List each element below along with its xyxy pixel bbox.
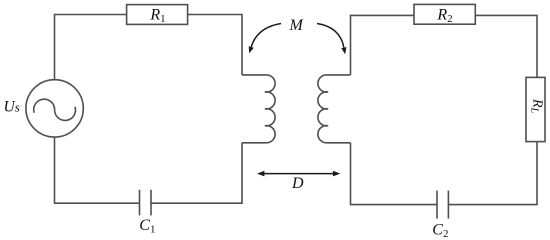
svg-text:RL: RL — [529, 98, 545, 114]
wire left-loop top right segment — [188, 15, 242, 75]
wire left-loop bottom right segment — [151, 143, 242, 203]
inductor L1 coil — [242, 75, 275, 143]
wire right-loop top right segment — [475, 15, 537, 77]
svg-text:M: M — [289, 17, 305, 34]
svg-text:Us: Us — [4, 98, 20, 115]
resistor RL box — [526, 77, 545, 141]
resistor R2 — [414, 4, 475, 24]
wire right-loop top left segment — [351, 15, 415, 75]
source sine wave — [34, 99, 76, 120]
source Us circle — [26, 80, 83, 137]
capacitor C2 plates — [437, 191, 448, 219]
mutual coupling arrow left — [251, 24, 281, 48]
svg-text:C1: C1 — [139, 217, 155, 236]
wire left-loop top left segment — [55, 15, 127, 80]
wire left-loop bottom left segment — [55, 137, 140, 203]
inductor L2 coil — [318, 75, 351, 143]
resistor R1 — [127, 5, 188, 25]
svg-text:D: D — [291, 175, 304, 192]
capacitor C1 plates — [140, 190, 152, 216]
svg-text:R1: R1 — [149, 7, 165, 26]
distance arrow D — [263, 173, 335, 175]
svg-text:C2: C2 — [432, 222, 448, 238]
wire right-loop bottom left segment — [351, 143, 438, 205]
mutual coupling arrow right — [317, 24, 344, 48]
svg-text:R2: R2 — [436, 7, 452, 26]
wire right-loop bottom right segment — [448, 142, 537, 205]
